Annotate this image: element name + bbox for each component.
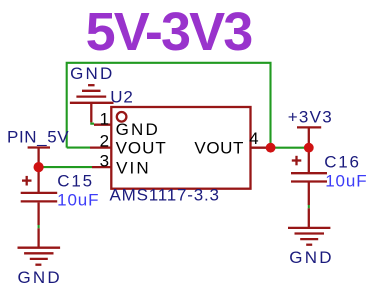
svg-text:2: 2 [100,131,109,150]
svg-text:PIN_5V: PIN_5V [7,127,69,146]
svg-text:VOUT: VOUT [194,138,244,157]
svg-text:VOUT: VOUT [116,138,167,157]
svg-text:U2: U2 [110,88,133,107]
svg-text:GND: GND [116,120,160,139]
svg-text:+3V3: +3V3 [288,107,333,126]
svg-text:VIN: VIN [116,159,151,178]
svg-text:10uF: 10uF [325,172,367,191]
svg-text:5V-3V3: 5V-3V3 [86,2,253,62]
svg-text:GND: GND [18,268,62,287]
svg-text:GND: GND [70,64,114,83]
svg-text:GND: GND [289,248,333,267]
svg-text:10uF: 10uF [57,191,99,210]
svg-text:3: 3 [100,152,109,171]
svg-text:4: 4 [249,129,258,148]
svg-text:C16: C16 [324,153,361,172]
svg-text:AMS1117-3.3: AMS1117-3.3 [110,186,220,205]
svg-text:1: 1 [100,110,109,129]
svg-text:C15: C15 [57,172,94,191]
